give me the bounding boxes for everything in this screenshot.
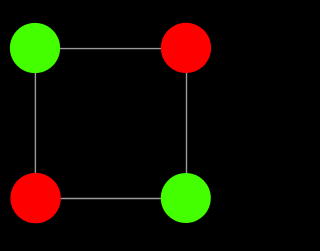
node top-right (red) <box>161 23 211 73</box>
node top-left (green) <box>10 23 60 73</box>
wire bottom edge <box>36 198 187 200</box>
wire left edge <box>34 48 36 198</box>
wire right edge <box>186 48 188 198</box>
wire top edge <box>35 48 186 50</box>
node bottom-right (green) <box>161 173 211 223</box>
node bottom-left (red) <box>10 173 60 223</box>
